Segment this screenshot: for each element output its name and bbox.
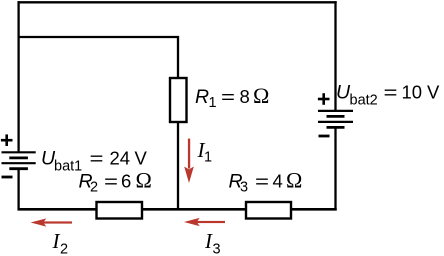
- svg-text:8: 8: [240, 86, 250, 107]
- label I3: [204, 229, 221, 256]
- svg-text:=: =: [221, 86, 235, 107]
- resistor R2: [97, 202, 143, 219]
- svg-text:4: 4: [273, 170, 283, 191]
- svg-text:V: V: [427, 82, 440, 103]
- wire right border upper (node to battery 2): [334, 1, 336, 111]
- svg-text:3: 3: [213, 242, 221, 256]
- svg-text:R: R: [195, 86, 209, 108]
- svg-text:=: =: [90, 147, 104, 168]
- wire bottom left segment: [18, 208, 97, 211]
- svg-text:1: 1: [204, 150, 212, 166]
- battery 2 minus sign: [319, 135, 330, 138]
- battery 2 plus sign: [318, 93, 330, 105]
- current arrow I1 (down): [184, 139, 194, 183]
- battery U_bat1: [2, 152, 36, 168]
- label U_bat1 = 24 V: [41, 147, 148, 174]
- label I1: [197, 138, 213, 166]
- wire bottom middle segment: [142, 208, 246, 211]
- svg-text:=: =: [255, 170, 269, 191]
- svg-text:V: V: [135, 147, 148, 168]
- svg-text:Ω: Ω: [286, 167, 302, 192]
- label U_bat2 = 10 V: [336, 82, 440, 109]
- battery 1 minus sign: [2, 176, 13, 179]
- current arrow I3 (left): [184, 218, 225, 226]
- label I2: [52, 229, 69, 256]
- label R2 = 6 ohm: [79, 167, 152, 195]
- battery U_bat2: [318, 111, 353, 128]
- svg-text:2: 2: [60, 242, 68, 256]
- resistor R3: [246, 202, 291, 219]
- svg-text:10: 10: [402, 82, 423, 103]
- current arrow I2 (left): [31, 218, 73, 226]
- wire top border: [18, 1, 337, 3]
- wire bottom right segment: [291, 208, 337, 211]
- label R1 = 8 ohm: [195, 83, 269, 111]
- svg-text:=: =: [384, 82, 398, 103]
- svg-text:Ω: Ω: [136, 167, 152, 192]
- label R3 = 4 ohm: [229, 167, 303, 195]
- svg-text:Ω: Ω: [253, 83, 269, 108]
- svg-text:1: 1: [209, 95, 217, 111]
- wire right border lower (battery 2 to bottom): [334, 127, 336, 210]
- svg-text:bat2: bat2: [350, 93, 378, 109]
- svg-text:24: 24: [110, 147, 131, 168]
- wire left border upper (node to battery 1): [17, 1, 19, 152]
- wire left border lower (battery 1 to bottom): [17, 169, 19, 211]
- svg-text:3: 3: [240, 179, 248, 195]
- svg-text:6: 6: [121, 170, 131, 191]
- resistor R1: [170, 78, 187, 122]
- wire middle branch lower: [177, 122, 179, 211]
- svg-text:2: 2: [90, 179, 98, 195]
- svg-text:=: =: [104, 170, 118, 191]
- wire middle branch horizontal: [18, 37, 179, 78]
- battery 1 plus sign: [1, 134, 13, 146]
